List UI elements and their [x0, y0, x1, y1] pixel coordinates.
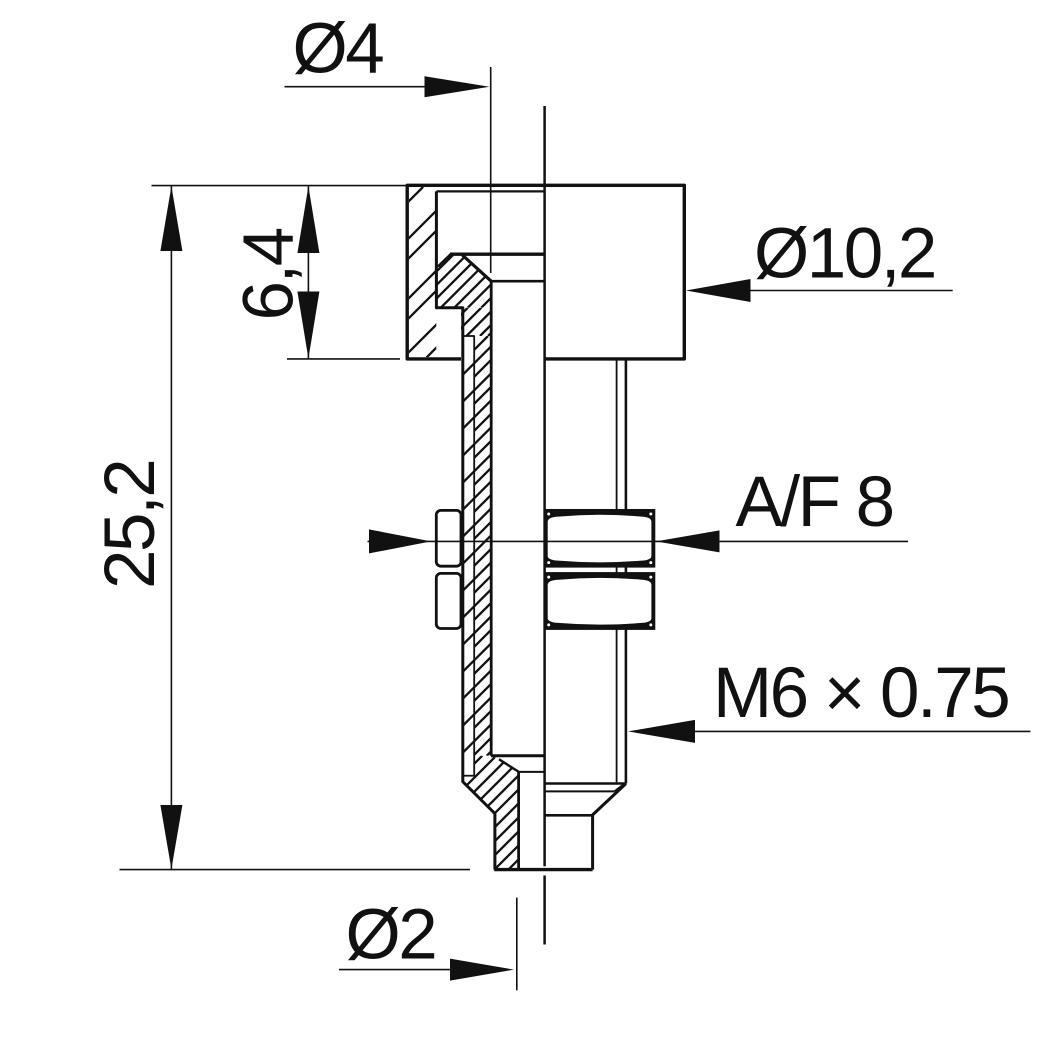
recess wall + internal shoulder + tube outer wall + bottom chamfer + tip wall [436, 191, 495, 869]
hatching: metal shank band [440, 308, 517, 336]
arrowhead 6,4 top [297, 186, 319, 253]
head Oe10,2 outline [407, 185, 684, 359]
svg-text:6,4: 6,4 [230, 228, 309, 320]
bore entry chamfer [462, 255, 492, 282]
svg-text:Ø4: Ø4 [293, 10, 384, 89]
thread start tick left [464, 335, 475, 337]
chamfer bottom edge line [491, 280, 545, 283]
hatching: lower cone and pin wall [369, 756, 637, 870]
thread crest line right (3 segments) [625, 359, 628, 511]
hatching: metal bushing upper section [400, 254, 534, 307]
dim Oe2 leader line [339, 969, 505, 971]
hatching: threaded tube wall long lines [82, 336, 907, 756]
bore bottom face [491, 754, 545, 757]
arrowhead 25,2 bottom [160, 805, 182, 869]
right chamfer cone [593, 784, 626, 870]
svg-text:M6 × 0.75: M6 × 0.75 [713, 654, 1008, 733]
bottom face edge [494, 868, 592, 871]
svg-text:Ø2: Ø2 [346, 895, 436, 974]
centre line / section boundary [543, 106, 546, 866]
thread runout diagonal [614, 784, 624, 792]
nut left section lower [436, 573, 461, 628]
bottom extension line [120, 869, 471, 871]
pin hole chamfer edge line [519, 771, 545, 773]
pin hole Oe2 wall [517, 772, 520, 870]
thread root line left [473, 336, 475, 776]
arrowhead A/F8 left [369, 529, 431, 553]
recess top line [436, 190, 544, 192]
dim 25,2 line [170, 186, 172, 869]
hatching: threaded tube wall short lines [68, 336, 893, 756]
svg-text:Ø10,2: Ø10,2 [754, 214, 935, 293]
bore Oe4 left wall [490, 281, 493, 756]
dim Oe2 extension line [516, 898, 518, 991]
arrowhead Oe2 [450, 959, 514, 981]
svg-text:A/F 8: A/F 8 [736, 463, 893, 542]
arrowhead 25,2 top [160, 186, 182, 251]
dim Oe10,2 leader line [700, 290, 953, 292]
arrowhead Oe4 [425, 76, 490, 97]
cone bottom edge line [545, 814, 593, 817]
nut left section upper [436, 510, 461, 566]
arrowhead A/F8 right [656, 530, 720, 552]
nut right view upper [544, 509, 656, 568]
dim M6 leader line [640, 730, 1030, 732]
dim Oe4 leader line [285, 86, 456, 88]
thread root line right (3 segments) [616, 359, 618, 511]
dim 6,4 line [307, 186, 309, 359]
recess corner bevel [439, 255, 451, 266]
dim 6,4 bottom extension line [287, 358, 400, 360]
hatching: insulator flange wall (section) [253, 187, 597, 358]
recess bottom face [450, 253, 545, 256]
nut right view lower [544, 572, 656, 630]
top extension line [152, 185, 408, 187]
thread end tick left [464, 775, 475, 777]
runout edge line [545, 790, 615, 792]
svg-text:25,2: 25,2 [91, 461, 170, 589]
pin hole chamfer [499, 759, 519, 772]
arrowhead M6 [628, 720, 695, 743]
thread end edge right [545, 782, 625, 785]
arrowhead Oe10,2 [686, 279, 751, 302]
arrowhead 6,4 bottom [297, 292, 319, 359]
dim A/F8 line [368, 540, 909, 542]
dim Oe4 extension line [490, 67, 492, 273]
